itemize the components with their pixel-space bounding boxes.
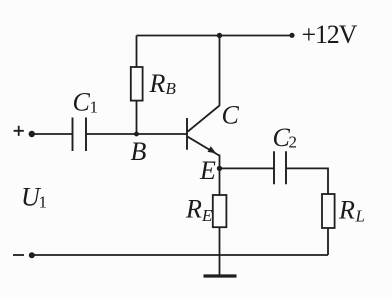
node (collector junction on supply rail) bbox=[217, 33, 222, 38]
terminal - (input) bbox=[13, 254, 24, 256]
svg-text:B: B bbox=[166, 79, 177, 98]
label RL bbox=[338, 196, 365, 226]
svg-text:L: L bbox=[355, 207, 365, 226]
terminal +12V bbox=[289, 33, 294, 38]
resistor RE bbox=[213, 195, 227, 227]
svg-text:C: C bbox=[73, 88, 91, 117]
wire (E to C2) bbox=[220, 167, 274, 169]
label U1 bbox=[21, 183, 47, 212]
svg-text:R: R bbox=[149, 69, 166, 98]
svg-text:E: E bbox=[201, 206, 213, 225]
svg-text:R: R bbox=[338, 196, 355, 225]
svg-text:2: 2 bbox=[289, 133, 298, 152]
label RE bbox=[185, 195, 213, 226]
wire (C2 to RL corner) bbox=[287, 168, 328, 194]
svg-text:1: 1 bbox=[39, 193, 48, 212]
label C2 bbox=[273, 123, 298, 152]
wire (RB bottom to base node) bbox=[136, 101, 138, 134]
capacitor C1 bbox=[73, 118, 87, 152]
svg-text:C: C bbox=[222, 101, 240, 130]
wire (C1 to base) bbox=[87, 133, 187, 135]
svg-text:R: R bbox=[185, 195, 202, 224]
transistor Q1 bbox=[187, 106, 220, 156]
wire (RE to ground rail) bbox=[219, 227, 221, 255]
wire (RB top branch) bbox=[136, 36, 138, 68]
wire (collector vertical) bbox=[219, 36, 221, 106]
node (input - dot) bbox=[29, 252, 35, 258]
capacitor C2 bbox=[274, 151, 286, 184]
node B (base junction) bbox=[134, 132, 139, 137]
label RB bbox=[149, 69, 177, 98]
ground bbox=[204, 255, 237, 276]
wire (emitter vertical to RE) bbox=[219, 155, 221, 196]
node (input + dot) bbox=[29, 131, 35, 137]
resistor RB bbox=[131, 67, 143, 101]
resistor RL bbox=[322, 194, 335, 228]
wire (top supply rail) bbox=[137, 35, 293, 37]
node E (emitter junction) bbox=[217, 166, 222, 171]
svg-text:1: 1 bbox=[90, 98, 99, 117]
wire (RL to ground rail) bbox=[327, 228, 329, 255]
svg-text:B: B bbox=[131, 137, 147, 166]
wire (bottom rail) bbox=[32, 254, 328, 256]
terminal + (input) bbox=[14, 126, 24, 136]
label C1 bbox=[73, 88, 99, 117]
svg-text:E: E bbox=[199, 156, 216, 185]
wire (input to C1) bbox=[32, 133, 72, 135]
svg-text:+12V: +12V bbox=[302, 20, 358, 49]
